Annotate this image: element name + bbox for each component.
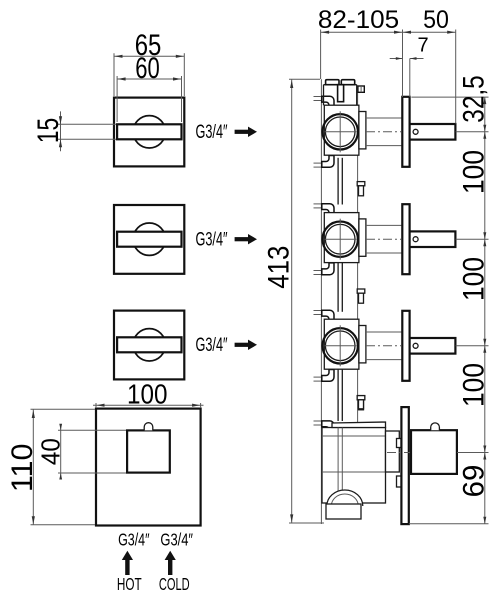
escutcheon plate M1 side view [402,97,409,167]
chain extension line 3 [456,238,489,240]
top dimension extension lines [320,30,322,80]
svg-text:100: 100 [127,379,168,410]
svg-text:100: 100 [457,363,490,407]
bottom right mid block [386,431,400,472]
handle lever bar S3 [117,337,181,352]
bottom spout box side view [411,430,457,474]
dimension 100 extension ticks [95,403,97,408]
back plate edge line [357,92,359,426]
valve module M2 cartridge circles [323,222,358,257]
svg-text:G3/4″: G3/4″ [160,529,193,549]
valve module M2 lower hook bracket [314,270,322,272]
dimension 60 line [117,78,181,80]
dimension 110 extension lines [31,408,96,410]
dimension 50 line [403,31,456,33]
dimension 110 line [32,409,34,524]
top right stub [358,86,364,92]
valve module M3 crosshair [325,345,357,347]
svg-text:G3/4″: G3/4″ [196,230,228,251]
handle M2 side view [410,231,456,247]
svg-text:G3/4″: G3/4″ [196,335,228,356]
valve module M2 connection duct lines [366,224,402,226]
handle square S2 front view [114,205,184,274]
svg-text:15: 15 [32,118,65,143]
svg-text:32,5: 32,5 [457,75,490,123]
valve module M1 connection duct lines [366,117,402,119]
handle M1 screw hole [413,129,418,134]
handle knob circle S1 [133,116,165,148]
chain arrow node 4 [483,339,486,346]
chain arrow node 3 [483,232,486,239]
valve body square front [127,430,170,472]
riser pipe below M1 [337,158,339,205]
side fitting stub below M2 [357,289,365,293]
chain extension line 2 [456,131,489,133]
riser pipe below M2 [337,263,339,312]
svg-text:HOT: HOT [117,574,142,594]
handle square S3 front view [114,311,184,380]
valve module M2 cartridge body [324,213,359,263]
dimension 60 extension lines [116,76,118,122]
handle M3 side view [410,338,456,354]
valve module M2 centerline dash [366,238,401,240]
valve module M1 lower hook bracket [314,162,322,164]
svg-text:60: 60 [135,52,160,85]
handle M2 screw hole [413,237,418,242]
bottom body inner pipes [337,428,339,493]
outlet direction arrow 3 [235,343,249,347]
chain extension line 6 [409,523,489,525]
chain arrow node 5 [483,446,486,453]
valve module M1 cartridge body [324,105,359,155]
svg-text:413: 413 [263,246,296,289]
dimension 15 line [60,111,62,151]
chain arrow node 1 [483,97,486,104]
dimension 15 extension lines [57,123,116,125]
svg-text:69: 69 [457,465,490,498]
handle lever bar S1 [117,124,181,139]
side fitting stub below M3 [357,396,365,400]
svg-text:G3/4″: G3/4″ [196,122,228,143]
dimension 40 line [60,424,62,479]
top mounting cap plate [324,84,357,86]
svg-text:50: 50 [423,6,449,34]
valve module M1 cartridge circles [323,114,358,149]
escutcheon plate M3 side view [402,311,409,381]
mounting rail line [320,79,322,524]
valve module M3 centerline dash [366,345,401,347]
bottom centerline dash [387,452,410,454]
svg-text:100: 100 [457,257,490,301]
chain extension line 4 [456,345,489,347]
valve body top tab [144,423,153,431]
valve module M1 centerline dash [366,131,401,133]
svg-text:COLD: COLD [159,574,190,594]
bottom escutcheon plate side view [401,407,408,524]
svg-text:40: 40 [36,438,66,465]
svg-text:82-105: 82-105 [318,6,399,34]
valve module M1 crosshair [325,131,357,133]
cold inlet arrow up [168,556,172,575]
svg-text:110: 110 [6,443,39,492]
dimension 7 lines [390,58,403,60]
chain extension line 1 [411,96,488,98]
dimension 413 line [291,79,293,523]
dimension 413 extension lines [289,78,320,80]
valve module M3 lower hook bracket [314,376,322,378]
handle square S1 front view [114,98,184,167]
valve module M2 crosshair [325,238,357,240]
right dimension chain line [484,97,486,524]
hot inlet arrow up [125,556,129,575]
handle M1 side view [410,124,456,140]
bottom spout top tab [431,423,440,430]
chain arrow node 2 [483,125,486,132]
handle knob circle S2 [133,223,165,255]
escutcheon plate M2 side view [402,204,409,274]
chain extension line 5 [457,452,488,454]
valve module M1 upper hook bracket [314,96,322,98]
bottom valve body block [322,428,386,504]
handle M3 screw hole [413,343,418,348]
top cap screw head left [326,80,339,85]
top cap screw head right [341,80,354,85]
bottom body top cap [332,422,386,428]
top screw slot [338,85,344,102]
wall plate front view [96,409,201,526]
valve module M3 connection duct lines [366,331,402,333]
dimension 82-105 line [321,31,403,33]
svg-text:100: 100 [457,150,490,194]
outlet direction arrow 2 [235,237,249,241]
bottom assembly hook bracket [314,420,322,422]
valve module M2 upper hook bracket [314,203,322,205]
svg-text:7: 7 [417,35,428,57]
outlet direction arrow 1 [235,130,249,134]
valve module M3 upper hook bracket [314,310,322,312]
valve module M3 cartridge circles [323,328,358,363]
svg-text:G3/4″: G3/4″ [118,529,149,549]
dimension 40 extension lines [58,429,127,431]
handle lever bar S2 [117,232,181,247]
bottom assembly fitting stub [357,396,365,400]
outlet bend arch [327,490,363,506]
handle knob circle S3 [133,329,165,361]
side fitting stub below M1 [357,182,365,186]
dimension 65 line [114,55,184,57]
dimension 100 line [93,404,204,406]
bottom outlet box [326,504,361,519]
dimension 65 extension lines [113,53,115,96]
riser pipe below M3 [337,370,339,421]
chain arrow node 6 [483,517,486,524]
valve module M3 cartridge body [324,319,359,369]
